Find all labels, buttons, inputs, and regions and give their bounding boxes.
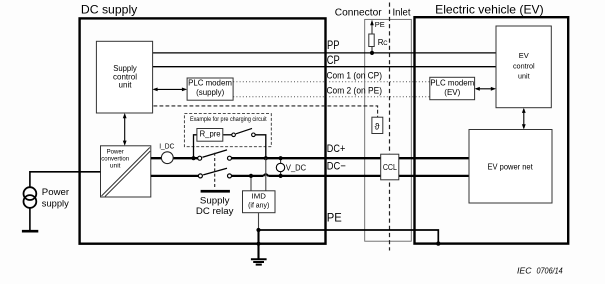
wire PE arrow at connector top	[371, 24, 373, 53]
wire Com 1 (dotted)	[233, 81, 430, 83]
IMD lead to DC-	[250, 176, 252, 191]
voltmeter V_DC riser	[280, 158, 282, 176]
svg-text:Example for pre charging circu: Example for pre charging circuit	[190, 116, 267, 123]
voltmeter V_DC	[276, 163, 284, 171]
IMD box	[243, 191, 276, 213]
wire from power supply to power convertion unit	[30, 172, 101, 188]
resistor R_pre	[197, 129, 223, 142]
wire R_pre to switch	[223, 134, 232, 136]
wire DC-	[151, 175, 201, 177]
wire PP	[152, 52, 496, 54]
wire Com 2 (dotted)	[233, 96, 430, 98]
connector/inlet outline	[365, 19, 412, 241]
svg-text:IMD: IMD	[252, 193, 266, 200]
svg-text:control: control	[513, 61, 535, 70]
PLC modem (supply)	[187, 78, 233, 100]
svg-text:DC relay: DC relay	[196, 206, 234, 217]
arrow supply control unit to power convertion unit	[124, 115, 126, 145]
svg-text:CP: CP	[327, 55, 340, 67]
svg-text:PE: PE	[375, 20, 385, 29]
svg-text:Power: Power	[107, 148, 124, 155]
svg-text:PE: PE	[327, 212, 342, 224]
node Rc-PP junction	[370, 51, 374, 55]
svg-text:unit: unit	[119, 81, 133, 90]
svg-text:0706/14: 0706/14	[537, 266, 563, 276]
svg-text:Connector: Connector	[335, 7, 382, 18]
svg-text:PLC modem: PLC modem	[188, 79, 232, 88]
temperature sensor box	[372, 117, 383, 133]
IMD lead to earth	[258, 213, 260, 230]
svg-text:(EV): (EV)	[444, 88, 460, 97]
svg-text:Electric vehicle (EV): Electric vehicle (EV)	[435, 3, 544, 17]
svg-text:DC+: DC+	[327, 143, 346, 155]
wire PE	[259, 230, 439, 244]
EV control unit	[496, 26, 551, 108]
node V_DC top	[279, 156, 283, 160]
DC- crossing hop	[263, 174, 268, 176]
wire earth stem	[257, 230, 259, 259]
ground	[251, 258, 267, 260]
node pre-charge right junction	[264, 156, 268, 160]
contactor upper (DC+)	[198, 156, 202, 160]
svg-text:(if any): (if any)	[248, 202, 269, 209]
DC supply enclosure	[80, 18, 326, 243]
svg-text:IEC: IEC	[517, 266, 532, 276]
ammeter I_DC	[161, 152, 173, 164]
node V_DC bottom	[279, 174, 283, 178]
svg-text:PP: PP	[327, 40, 340, 52]
svg-text:unit: unit	[110, 163, 121, 170]
wire pre-charge left riser	[194, 135, 197, 158]
svg-text:PLC modem: PLC modem	[430, 78, 474, 87]
IMD lead to DC+	[265, 158, 267, 191]
wire CP	[152, 66, 496, 68]
svg-text:R_pre: R_pre	[200, 130, 221, 139]
arrow supply control unit to PLC modem	[154, 88, 186, 90]
wire pre-charge right riser	[255, 135, 266, 158]
arrow EV control unit to EV power net	[523, 109, 525, 128]
svg-text:Com 1 (on CP): Com 1 (on CP)	[327, 70, 383, 80]
svg-text:convertion: convertion	[101, 155, 129, 162]
svg-text:I_DC: I_DC	[159, 141, 175, 150]
pre-charge example dashed box	[184, 114, 271, 147]
EV enclosure	[415, 17, 569, 243]
svg-text:CCL: CCL	[383, 163, 398, 172]
wire DC+	[151, 157, 200, 159]
PLC modem (EV)	[430, 77, 475, 99]
svg-text:C: C	[383, 41, 388, 47]
contactor lower (DC-)	[198, 174, 202, 178]
supply control unit	[96, 41, 152, 113]
node earth on DC supply frame	[256, 242, 260, 246]
resistor Rc	[369, 34, 374, 47]
node IMD DC- junction	[249, 174, 253, 178]
converter diagonal lines	[102, 148, 150, 197]
svg-text:supply: supply	[42, 198, 70, 208]
arrow PLC modem (EV) to EV control unit	[476, 88, 495, 90]
EV power net	[469, 130, 552, 204]
svg-text:ϑ: ϑ	[375, 122, 380, 132]
supply DC relay bar	[201, 190, 230, 193]
node PE to EV chassis	[436, 241, 440, 245]
wire power supply bottom	[29, 208, 31, 231]
connector-inlet mating dashed line	[389, 3, 391, 251]
svg-text:unit: unit	[518, 72, 530, 81]
svg-text:EV: EV	[519, 51, 529, 60]
node pre-charge left junction	[191, 156, 195, 160]
power convertion unit	[101, 146, 151, 197]
svg-text:DC supply: DC supply	[81, 2, 137, 16]
svg-text:EV power net: EV power net	[488, 162, 534, 172]
svg-text:Inlet: Inlet	[393, 7, 411, 18]
node PE-IMD junction	[256, 228, 260, 232]
dashed wire to temperature sensor	[154, 106, 378, 117]
svg-text:Com 2 (on PE): Com 2 (on PE)	[327, 86, 383, 96]
svg-text:V_DC: V_DC	[286, 163, 306, 172]
CCL box	[381, 154, 399, 180]
mechanical link dashed	[214, 153, 216, 189]
svg-text:DC−: DC−	[327, 160, 346, 172]
svg-text:Power: Power	[42, 187, 69, 197]
pre-charge switch	[232, 133, 236, 137]
svg-text:(supply): (supply)	[196, 88, 224, 97]
